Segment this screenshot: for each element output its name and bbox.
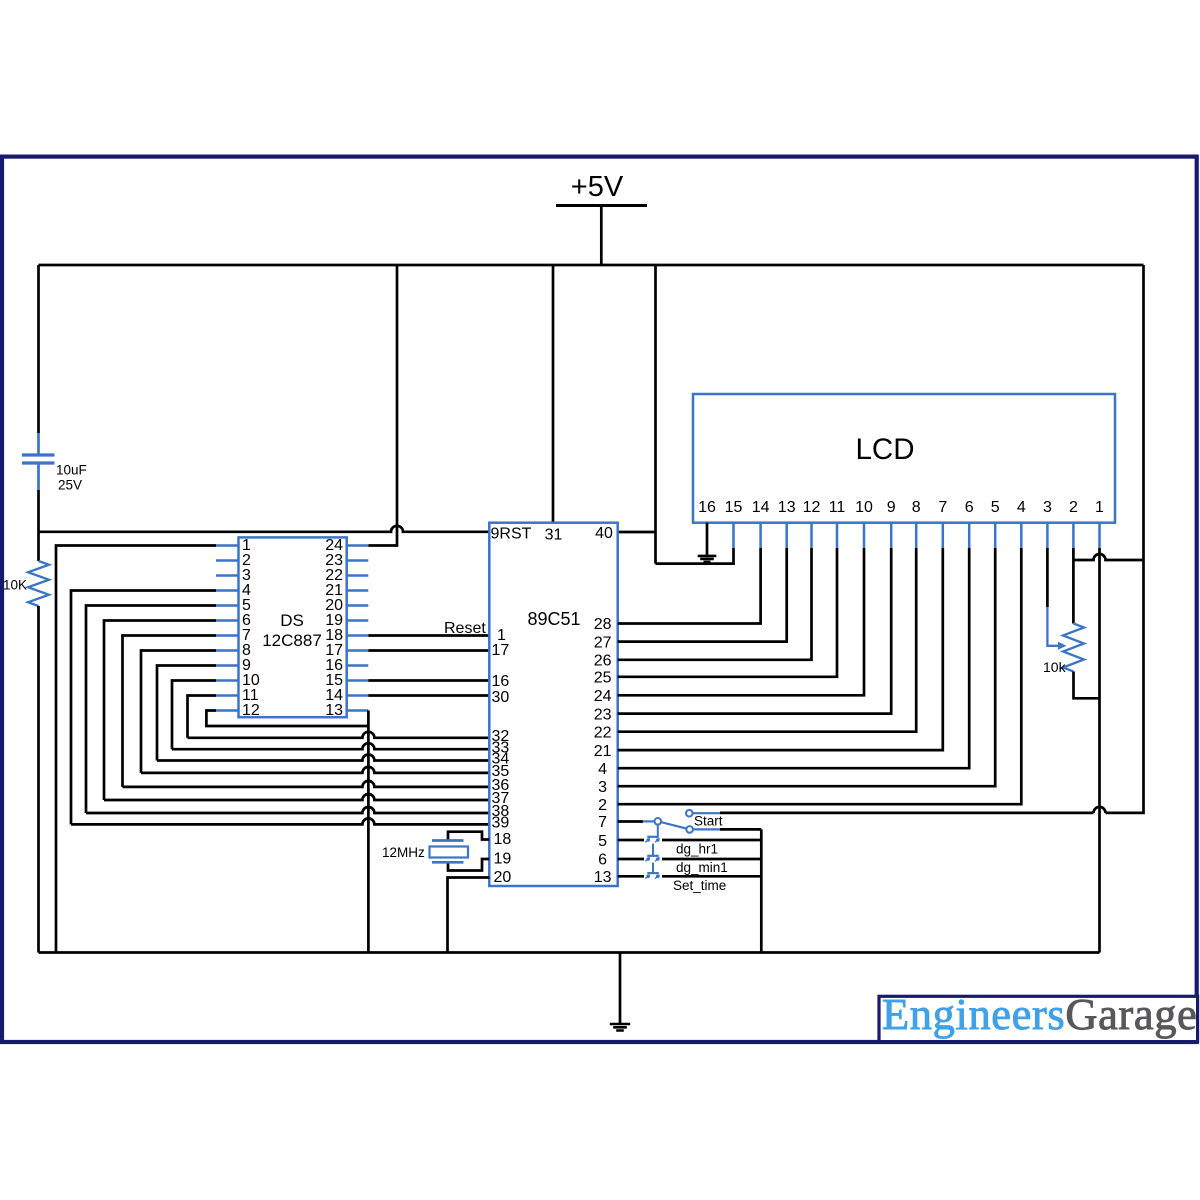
wire bus AD6 to 89C51 pin38 with jump <box>86 807 489 813</box>
switch S1 bottom throw wire <box>693 828 720 830</box>
svg-text:19: 19 <box>494 851 512 868</box>
wire LCD pin10 to 89C51 pin24 <box>618 548 864 695</box>
wire +5V stem <box>600 206 603 266</box>
switch link button2 to button3 <box>652 863 654 874</box>
wire bus AD5 to 89C51 pin37 with jump <box>104 794 489 800</box>
svg-text:5: 5 <box>991 499 1000 516</box>
svg-text:16: 16 <box>492 673 510 690</box>
potentiometer RV1 zigzag <box>1063 624 1084 672</box>
wire switches return to ground bus <box>760 829 763 952</box>
svg-text:6: 6 <box>965 499 974 516</box>
svg-text:22: 22 <box>594 724 612 741</box>
svg-text:31: 31 <box>545 527 563 544</box>
wire DS pin12 to ground vertical <box>206 711 368 727</box>
wire +5V bus right drop to Start switch <box>720 265 1144 813</box>
svg-text:9: 9 <box>887 499 896 516</box>
wire LCD pin2 down to pot top <box>1072 548 1075 624</box>
wire top +5V bus <box>39 264 1144 267</box>
svg-text:16: 16 <box>698 499 716 516</box>
svg-text:12MHz: 12MHz <box>382 845 425 860</box>
capacitor C1 10uF plates <box>22 455 55 463</box>
svg-text:18: 18 <box>494 831 512 848</box>
wire LCD pin12 to 89C51 pin26 <box>618 548 812 660</box>
svg-text:7: 7 <box>938 499 947 516</box>
wire LCD pin7 to 89C51 pin21 <box>618 548 943 750</box>
svg-text:26: 26 <box>594 653 612 670</box>
wire +5V bus drop x=655 <box>654 265 657 564</box>
svg-text:30: 30 <box>492 689 510 706</box>
svg-text:15: 15 <box>725 499 743 516</box>
svg-text:28: 28 <box>594 616 612 633</box>
capacitor C1 leads <box>37 433 40 490</box>
svg-text:13: 13 <box>325 702 343 719</box>
LCD pin numbers 16..1 <box>698 499 1104 516</box>
wire RST node to 89C51 pin9 with jump over +5V drop <box>39 526 490 532</box>
svg-text:89C51: 89C51 <box>527 609 580 629</box>
svg-text:3: 3 <box>1043 499 1052 516</box>
wire 89C51 pin40 to +5V <box>618 531 656 534</box>
svg-text:LCD: LCD <box>855 433 914 466</box>
IC U1 89C51 box <box>489 523 617 886</box>
svg-text:11: 11 <box>829 499 846 516</box>
wire DS pin4 loop <box>71 591 216 825</box>
wire capacitor to RST node to resistor <box>37 490 40 561</box>
pushbutton SW3 dg_min1 <box>618 858 644 861</box>
svg-text:12: 12 <box>803 499 821 516</box>
svg-text:40: 40 <box>595 525 613 542</box>
wire left branch from bus to capacitor <box>37 265 40 433</box>
wire +5V to LCD pin15 <box>656 548 734 564</box>
svg-text:1: 1 <box>1095 499 1104 516</box>
wire bottom ground bus <box>39 951 1100 954</box>
wire DS pin13 to ground bus <box>367 711 370 953</box>
svg-text:Set_time: Set_time <box>673 878 726 893</box>
svg-text:2: 2 <box>598 797 607 814</box>
LCD pin stubs <box>734 523 1100 548</box>
wire bus AD2 to 89C51 pin34 with jump <box>157 755 489 761</box>
wire DS pin7 loop <box>123 636 217 787</box>
wire DS pin14 to 89C51 pin30 <box>368 694 489 697</box>
svg-text:DS: DS <box>280 611 304 630</box>
power +5V bar <box>556 204 647 207</box>
svg-text:10k: 10k <box>1043 659 1067 675</box>
svg-text:3: 3 <box>598 779 607 796</box>
svg-text:+5V: +5V <box>571 171 624 203</box>
DS right pin numbers <box>325 537 343 719</box>
wire LCD pin6 to 89C51 pin4 <box>618 548 970 768</box>
svg-text:13: 13 <box>594 869 612 886</box>
wire LCD pin8 to 89C51 pin22 <box>618 548 917 732</box>
svg-text:2: 2 <box>1069 499 1078 516</box>
svg-text:9RST: 9RST <box>491 526 532 543</box>
IC U2 DS12C887 box <box>239 537 347 717</box>
pushbutton SW4 Set_time <box>618 875 644 878</box>
switch S1 Start wires <box>618 820 643 823</box>
wire LCD pin11 to 89C51 pin25 <box>618 548 837 677</box>
crystal Y1 pin18 lead <box>448 832 489 841</box>
wire LCD pin13 to 89C51 pin27 <box>618 548 787 642</box>
ground under LCD pin16 <box>706 523 709 555</box>
wire LCD pin14 to 89C51 pin28 <box>618 548 761 624</box>
svg-text:4: 4 <box>598 761 607 778</box>
DS left pin numbers <box>242 537 260 719</box>
potentiometer RV1 wiper <box>1047 607 1059 646</box>
svg-text:10: 10 <box>855 499 873 516</box>
svg-text:8: 8 <box>912 499 921 516</box>
svg-text:12: 12 <box>242 702 260 719</box>
wire LCD pin9 to 89C51 pin23 <box>618 548 892 714</box>
svg-text:13: 13 <box>778 499 796 516</box>
svg-text:4: 4 <box>1017 499 1026 516</box>
wire resistor bottom to ground bus <box>37 606 40 953</box>
svg-text:EngineersGarage: EngineersGarage <box>882 989 1197 1039</box>
crystal Y1 pin19 lead <box>448 859 489 871</box>
wire DS pin11 loop <box>188 696 217 738</box>
svg-text:dg_min1: dg_min1 <box>676 860 728 875</box>
DS right pin stubs 24-13 <box>347 546 369 711</box>
DS left pin stubs 1-12 <box>216 546 239 711</box>
switch S1 top throw wire <box>693 812 720 814</box>
EngineersGarage logo <box>879 996 1198 1041</box>
wire LCD pin4 to 89C51 pin2 <box>618 548 1022 804</box>
svg-text:23: 23 <box>594 706 612 723</box>
wire +5V bus drop to 89C51 pin31 <box>552 265 555 523</box>
switch S1 arm <box>661 822 687 829</box>
U1 right pin numbers <box>594 616 612 886</box>
wire DS pin6 loop <box>104 621 216 801</box>
U1 left pin numbers <box>492 627 512 886</box>
svg-text:10uF: 10uF <box>56 463 87 478</box>
wire DS pin17 to 89C51 pin17 <box>368 649 489 652</box>
border frame <box>2 157 1197 1042</box>
wire bus AD4 to 89C51 pin36 with jump <box>123 781 490 787</box>
wire +5V bus drop to DS pin24 <box>368 265 397 546</box>
svg-text:7: 7 <box>598 814 607 831</box>
svg-text:5: 5 <box>598 833 607 850</box>
wire bus AD3 to 89C51 pin35 with jump <box>141 767 489 773</box>
switch S1 poles <box>655 818 662 825</box>
wire bus AD0 to 89C51 pin32 with jump <box>188 732 490 738</box>
wire DS pin1 to ground bus <box>56 546 216 953</box>
wire DS pin18 to 89C51 pin1 <box>368 634 489 637</box>
LCD module box <box>693 394 1115 523</box>
wire DS pin10 loop <box>172 681 216 750</box>
svg-text:25: 25 <box>594 670 612 687</box>
wire DS pin9 loop <box>157 666 216 761</box>
wire LCD pin1 to ground bus <box>1098 548 1101 953</box>
svg-text:39: 39 <box>492 815 510 832</box>
svg-text:6: 6 <box>598 852 607 869</box>
svg-text:21: 21 <box>594 743 612 760</box>
resistor R1 10K zigzag <box>28 561 49 606</box>
svg-text:12C887: 12C887 <box>262 631 322 650</box>
wire LCD pin5 to 89C51 pin3 <box>618 548 996 786</box>
svg-text:24: 24 <box>594 688 612 705</box>
svg-text:dg_hr1: dg_hr1 <box>676 842 718 857</box>
svg-text:20: 20 <box>494 869 512 886</box>
wire DS pin15 to 89C51 pin16 <box>368 679 489 682</box>
pushbutton SW2 dg_hr1 <box>618 839 644 842</box>
ground symbol <box>619 953 622 1024</box>
wire bus AD7 to 89C51 pin39 with jump <box>71 818 489 824</box>
crystal Y1 body <box>430 847 469 858</box>
svg-text:Reset: Reset <box>444 620 486 637</box>
wire LCD pin2 to +5V vertical with jump <box>1073 554 1143 560</box>
crystal Y1 plates <box>432 841 464 863</box>
wire pot bottom to ground vertical <box>1074 672 1100 699</box>
svg-text:14: 14 <box>752 499 770 516</box>
svg-text:17: 17 <box>492 642 510 659</box>
svg-text:10K: 10K <box>3 578 27 593</box>
wire bus AD1 to 89C51 pin33 with jump <box>172 743 489 749</box>
wire DS pin8 loop <box>141 651 216 773</box>
wire LCD pin3 down to pot wiper <box>1046 548 1049 607</box>
svg-text:27: 27 <box>594 634 612 651</box>
svg-text:25V: 25V <box>58 478 82 493</box>
switch link button1 to button2 <box>652 844 654 856</box>
svg-text:Start: Start <box>694 814 723 829</box>
wire DS pin5 loop <box>86 606 216 814</box>
wire 89C51 pin20 to ground bus <box>448 878 490 953</box>
switch link Start to button1 <box>657 825 659 837</box>
